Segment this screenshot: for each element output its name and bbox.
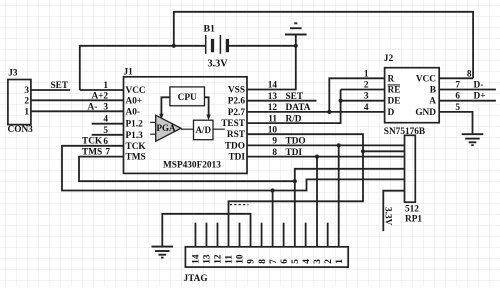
svg-text:A-: A- (88, 102, 98, 112)
connector JTAG box (185, 247, 348, 267)
wire VCC rail riser to top (174, 12, 473, 79)
PGA input stubs (150, 121, 156, 123)
wire JTAG pin 14 stub (194, 223, 196, 247)
wire JTAG pin 6 stub (283, 223, 285, 247)
svg-text:A: A (429, 97, 436, 107)
wire J1 pin1 VCC (80, 89, 124, 91)
svg-text:4: 4 (364, 103, 369, 113)
wire J2 pin3 DE (341, 100, 385, 102)
block A/D box (194, 120, 214, 140)
svg-text:D: D (388, 108, 395, 118)
ic J1 MSP430F2013 box (124, 77, 248, 174)
svg-text:3.3V: 3.3V (208, 58, 229, 69)
svg-text:3: 3 (103, 102, 108, 112)
svg-text:DE: DE (388, 97, 401, 107)
wire J2 pin2 RE (341, 89, 385, 91)
wire VCC rail top (80, 46, 205, 90)
ground bottom left (152, 246, 174, 248)
dashed no-connect mark (230, 204, 249, 206)
svg-text:2: 2 (24, 96, 29, 106)
svg-text:RP1: RP1 (405, 215, 422, 225)
svg-text:GND: GND (415, 108, 436, 118)
svg-text:J2: J2 (384, 54, 394, 64)
svg-text:14: 14 (268, 81, 278, 91)
svg-text:PGA: PGA (157, 123, 176, 133)
junction battery minus / VSS / ground (294, 44, 298, 48)
wire JTAG pin 2 stub (327, 223, 329, 247)
svg-text:13: 13 (203, 254, 213, 264)
wire J1 pin4 stub (92, 123, 124, 125)
svg-text:R: R (388, 74, 395, 84)
svg-text:512: 512 (405, 205, 419, 215)
svg-text:1: 1 (24, 107, 29, 117)
svg-text:P1.2: P1.2 (126, 120, 144, 130)
wire battery minus to ground node (229, 45, 296, 47)
svg-text:A/D: A/D (195, 125, 211, 135)
svg-text:CPU: CPU (178, 93, 197, 103)
svg-text:D-: D- (474, 81, 484, 91)
wire TMS net (79, 157, 295, 182)
connector J3 box (8, 80, 31, 125)
svg-text:2: 2 (103, 91, 108, 101)
svg-text:TCK: TCK (126, 142, 147, 152)
svg-text:P2.7: P2.7 (228, 108, 246, 118)
svg-text:14: 14 (192, 254, 202, 264)
wire DATA net (247, 111, 385, 113)
svg-text:RST: RST (227, 130, 246, 140)
wire JTAG pin3 riser (316, 157, 318, 247)
wire TDI net (247, 156, 405, 158)
wire JTAG pin5 riser to RP1 (295, 169, 405, 247)
svg-text:TMS: TMS (126, 153, 146, 163)
wire VSS pin 14 (247, 46, 296, 90)
junction R to DATA (327, 110, 331, 114)
wire R/D net (247, 90, 341, 124)
wire A/D output stub (213, 128, 225, 130)
svg-text:3: 3 (313, 259, 323, 264)
svg-text:TDI: TDI (228, 153, 245, 163)
junction TDI to JTAG pin3 (315, 155, 319, 159)
junction RE DE (339, 99, 343, 103)
ic J2 SN75176B box (385, 68, 440, 123)
wire J2 pin1 R (329, 78, 384, 112)
svg-text:11: 11 (225, 255, 235, 264)
svg-text:SET: SET (51, 81, 69, 91)
battery B1 (205, 35, 207, 54)
svg-text:B1: B1 (204, 24, 216, 35)
svg-text:P1.3: P1.3 (126, 131, 144, 141)
svg-text:TEST: TEST (221, 119, 246, 129)
wire JTAG pin 12 stub (216, 223, 218, 247)
svg-text:7: 7 (269, 259, 279, 264)
wire 3.3V to RP1 (383, 191, 404, 231)
amplifier PGA (156, 115, 181, 141)
wire JTAG pin 4 stub (305, 223, 307, 247)
wire JTAG pin 8 stub (261, 223, 263, 247)
wire JTAG pin 10 stub (239, 223, 241, 247)
wire JTAG pin 13 stub (205, 223, 207, 247)
svg-text:JTAG: JTAG (184, 274, 208, 284)
wire JTAG pin1 riser (338, 145, 340, 246)
svg-text:CON3: CON3 (8, 125, 34, 135)
junction RST to RP1 row (361, 149, 365, 153)
svg-text:P2.6: P2.6 (228, 97, 246, 107)
junction TDO to JTAG pin1 (337, 143, 341, 147)
junction TCK to JTAG pin7 (271, 188, 275, 192)
wire CPU to A/D arrow (205, 97, 209, 116)
svg-text:A0-: A0- (126, 107, 140, 117)
wire SET stub right (247, 100, 317, 102)
wire RST to RP1 (363, 150, 405, 152)
svg-text:3: 3 (24, 86, 29, 96)
wire J3 pin1 to J1 A0- (31, 110, 124, 112)
svg-text:B: B (430, 86, 436, 96)
svg-text:3.3V: 3.3V (383, 207, 393, 226)
wire GND to JTAG pin9 (162, 214, 250, 247)
junction on VCC rail (172, 44, 176, 48)
svg-text:2: 2 (324, 259, 334, 264)
wire J2 pin5 GND (439, 112, 472, 134)
svg-text:J1: J1 (124, 68, 134, 78)
svg-text:6: 6 (280, 259, 290, 264)
svg-text:J3: J3 (8, 69, 18, 79)
wire TDO net (247, 144, 405, 146)
svg-text:VCC: VCC (126, 86, 146, 96)
wire J2 pin7 B D- stub (439, 89, 496, 91)
wire PGA to A/D (181, 128, 194, 130)
svg-text:5: 5 (291, 259, 301, 264)
wire CPU to PGA arrow (161, 97, 170, 115)
wire J3 pin3 SET stub (31, 89, 70, 91)
wire TCK net (62, 146, 405, 191)
svg-text:9: 9 (247, 259, 257, 264)
resistor pack RP1 box (405, 135, 416, 202)
wire JTAG pin7 riser (272, 191, 274, 247)
junction TMS to JTAG pin5 (293, 179, 297, 183)
svg-text:TDO: TDO (225, 141, 245, 151)
svg-text:10: 10 (236, 254, 246, 264)
ground bottom right (462, 133, 484, 135)
svg-text:1: 1 (335, 259, 345, 264)
wire RST net (229, 134, 364, 247)
svg-text:12: 12 (214, 254, 224, 264)
svg-text:A+: A+ (92, 91, 104, 101)
wire J2 pin8 VCC (439, 77, 473, 79)
ground top (295, 35, 297, 46)
wire J3 pin2 to J1 A0+ (31, 99, 124, 101)
svg-text:8: 8 (258, 259, 268, 264)
svg-text:MSP430F2013: MSP430F2013 (163, 161, 221, 171)
svg-text:D+: D+ (474, 92, 486, 102)
svg-text:VCC: VCC (416, 74, 436, 84)
svg-text:RE: RE (388, 86, 401, 96)
wire J1 pin5 stub (92, 134, 124, 136)
wire J2 pin6 A D+ stub (439, 100, 496, 102)
block CPU box (170, 87, 205, 106)
svg-text:VSS: VSS (228, 86, 245, 96)
svg-text:A0+: A0+ (126, 96, 143, 106)
svg-text:4: 4 (302, 259, 312, 264)
